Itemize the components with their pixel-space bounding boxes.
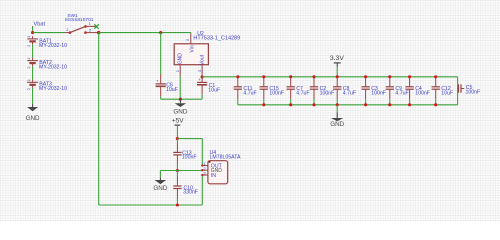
wire Vbat to SW1 — [33, 32, 65, 34]
svg-text:Vout: Vout — [200, 54, 206, 65]
battery BAT1 — [32, 36, 34, 39]
svg-text:1: 1 — [175, 69, 180, 72]
wire BAT2-BAT3 — [32, 66, 34, 79]
no-connect flag pin1 — [94, 24, 98, 28]
svg-text:10uF: 10uF — [441, 91, 453, 97]
wire SW1 to U2 Vin — [99, 32, 191, 34]
capacitor C13 — [176, 139, 178, 143]
svg-text:2: 2 — [66, 27, 69, 32]
svg-text:2: 2 — [185, 38, 190, 41]
wire BAT3-GND — [32, 88, 34, 105]
wire bottom rail to U4 IN — [99, 204, 203, 206]
svg-text:100nF: 100nF — [320, 91, 335, 97]
svg-text:MY-2032-10: MY-2032-10 — [39, 65, 67, 71]
capacitor C1 — [201, 77, 203, 83]
capacitor C6 — [160, 74, 162, 84]
wire Vbat stub — [32, 27, 34, 32]
node Vout junction — [201, 75, 204, 78]
svg-text:GND: GND — [173, 109, 187, 116]
capacitor C3 — [364, 75, 367, 78]
capacitor C7 — [289, 75, 292, 78]
wire U2 ground rail — [161, 98, 202, 100]
svg-text:100nF: 100nF — [182, 155, 197, 161]
svg-text:10uF: 10uF — [208, 88, 220, 94]
svg-text:+: + — [198, 77, 201, 82]
svg-text:3: 3 — [89, 27, 92, 32]
wire C1 bottom — [201, 95, 203, 99]
svg-text:2: 2 — [26, 44, 31, 47]
svg-text:4.7uF: 4.7uF — [296, 91, 309, 97]
node Vbat junction — [31, 31, 34, 34]
svg-text:100nF: 100nF — [415, 91, 430, 97]
capacitor C10 — [176, 171, 178, 177]
capacitor C9 — [388, 75, 391, 78]
svg-text:GND: GND — [153, 185, 167, 192]
svg-text:+: + — [156, 79, 159, 84]
svg-text:3: 3 — [197, 69, 202, 72]
capacitor C12 — [434, 75, 437, 78]
svg-text:2: 2 — [26, 87, 31, 90]
wire +5V to U4 OUT — [177, 138, 202, 140]
svg-text:330nF: 330nF — [183, 190, 198, 196]
wire Vbat switched vertical — [98, 33, 100, 205]
svg-text:GND: GND — [330, 121, 344, 128]
capacitor C15 — [262, 75, 265, 78]
svg-text:Vin: Vin — [189, 45, 195, 52]
capacitor C8 — [336, 75, 339, 78]
wire Vin drop — [190, 33, 192, 34]
capacitor C4 — [408, 75, 411, 78]
svg-text:HT7533-1_C14289: HT7533-1_C14289 — [193, 36, 240, 42]
wire U2 GND pin down — [179, 77, 181, 100]
wire 3.3V bottom rail — [238, 104, 458, 106]
wire BAT1-BAT2 — [32, 45, 34, 58]
svg-text:100nF: 100nF — [371, 91, 386, 97]
capacitor C2 — [312, 75, 315, 78]
svg-text:MY-2032-10: MY-2032-10 — [39, 86, 67, 92]
node bottom rail junction — [176, 203, 179, 206]
svg-text:4.7uF: 4.7uF — [395, 91, 408, 97]
svg-text:1: 1 — [26, 35, 31, 38]
ground GND 3.3V rail — [336, 112, 338, 118]
svg-text:GND: GND — [26, 115, 40, 122]
wire 3.3V right edge — [457, 77, 459, 105]
wire C6 bottom — [160, 96, 162, 99]
wire GND to U4 pin — [177, 170, 202, 172]
capacitor C11 — [236, 75, 239, 78]
wire U4 OUT riser — [201, 139, 203, 166]
capacitor C5 — [457, 88, 460, 90]
wire U4 IN riser — [201, 175, 203, 205]
svg-text:1: 1 — [26, 57, 31, 60]
svg-text:2: 2 — [26, 66, 31, 69]
svg-text:1: 1 — [26, 78, 31, 81]
wire C6 tap down — [160, 33, 162, 74]
svg-text:GND: GND — [177, 53, 183, 65]
ground GND U2 — [179, 99, 181, 103]
ground GND near C10 — [159, 178, 161, 180]
wire GND to left — [160, 170, 177, 172]
wire 3.3V top rail — [202, 76, 458, 78]
svg-text:4.7uF: 4.7uF — [343, 91, 356, 97]
svg-text:IN: IN — [211, 173, 216, 179]
svg-text:100nF: 100nF — [466, 89, 481, 95]
node +5V junction — [176, 137, 179, 140]
node U2 ground junction — [179, 98, 182, 101]
battery BAT3 — [32, 80, 34, 83]
node C6 tap — [159, 31, 162, 34]
node GND junction C13/C10 — [176, 169, 179, 172]
svg-text:MY-2032-10: MY-2032-10 — [39, 43, 67, 49]
ground GND battery stack — [32, 104, 34, 107]
svg-text:10uF: 10uF — [166, 87, 178, 93]
battery BAT2 — [32, 58, 34, 61]
svg-text:3.3V: 3.3V — [330, 55, 344, 62]
node switch output junction — [97, 31, 100, 34]
svg-text:4.7uF: 4.7uF — [243, 91, 256, 97]
svg-text:+5V: +5V — [172, 118, 184, 125]
svg-text:100nF: 100nF — [269, 91, 284, 97]
svg-text:LM78L05ATA: LM78L05ATA — [210, 154, 241, 160]
wire rail GND stub — [336, 105, 338, 112]
svg-text:Vbat: Vbat — [34, 22, 46, 28]
